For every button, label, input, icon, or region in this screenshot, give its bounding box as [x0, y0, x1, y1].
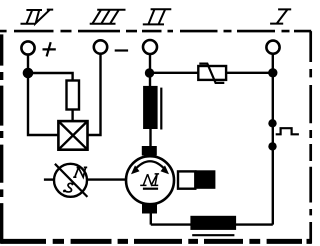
sensor N/S — [54, 164, 87, 197]
wire thermal fuse to node I — [226, 72, 273, 74]
terminal IV — [21, 41, 34, 54]
border top — [0, 30, 311, 33]
pulse symbol — [276, 128, 299, 134]
choke winding bottom — [190, 216, 236, 230]
wire winding to top brush — [149, 129, 151, 146]
wire crossed box right up to terminal III — [88, 54, 101, 135]
wire II terminal down — [149, 54, 151, 86]
suppression resistor half filled — [178, 170, 215, 189]
crossed box — [58, 121, 87, 150]
minus sign — [115, 49, 128, 51]
label III — [90, 10, 126, 24]
border bottom — [1, 239, 312, 244]
wire junction II to thermal fuse — [150, 72, 199, 74]
terminal III — [94, 40, 107, 53]
label II — [143, 9, 172, 24]
terminal II — [143, 40, 157, 54]
winding core line — [160, 88, 162, 130]
choke core line — [192, 234, 234, 236]
node switch upper — [268, 119, 276, 127]
label I — [270, 9, 291, 23]
wire bottom brush down to bottom wire — [150, 214, 152, 225]
wire bottom run — [151, 223, 273, 225]
border left — [0, 34, 3, 243]
wire I terminal down — [272, 54, 274, 225]
motor M — [126, 156, 174, 204]
wire junction down and right to crossed box — [28, 73, 58, 135]
wire sensor left stub — [44, 178, 54, 180]
node junction II — [145, 68, 154, 77]
motor bottom brush — [142, 204, 157, 214]
label IV — [21, 10, 54, 24]
wire resistor bottom to crossed box top — [71, 110, 73, 122]
plus sign — [43, 42, 56, 56]
terminal I — [266, 41, 279, 54]
node junction IV — [23, 68, 34, 79]
wire IV terminal down to junction — [27, 55, 29, 73]
motor top brush — [142, 146, 157, 156]
field winding — [143, 86, 158, 129]
border right — [309, 31, 312, 244]
resistor — [67, 81, 80, 110]
thermal fuse — [198, 64, 226, 83]
wire junction to resistor top — [28, 73, 73, 81]
wire sensor to motor — [87, 178, 126, 180]
node junction I top — [268, 68, 277, 77]
node switch lower — [268, 142, 276, 150]
motor rotation arrow — [131, 161, 169, 174]
